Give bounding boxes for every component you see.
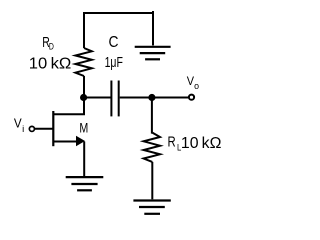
transistor M drain lead (horizontal then up to drain node) <box>53 98 84 114</box>
svg-text:V: V <box>187 74 194 88</box>
wire from resistor RD down to drain node <box>83 76 85 98</box>
svg-text:i: i <box>22 124 24 134</box>
terminal Vo open circle <box>189 95 194 100</box>
wire left vertical from top rail down to resistor RD <box>83 12 85 48</box>
wire right vertical from top rail down to upper ground <box>152 11 154 45</box>
capacitor C right plate <box>118 81 120 117</box>
wire top rail from drain branch to right ground branch <box>84 12 153 14</box>
resistor RL zigzag <box>144 133 160 162</box>
svg-text:C: C <box>109 34 119 51</box>
ground symbol under MOSFET source <box>66 177 104 190</box>
wire from capacitor right plate to output node <box>120 97 152 99</box>
wire from output node to Vo terminal <box>152 97 188 99</box>
node junction dot at drain / capacitor input <box>80 94 87 101</box>
svg-text:D: D <box>49 42 54 53</box>
svg-text:V: V <box>14 115 22 130</box>
transistor M channel bar <box>52 111 54 146</box>
svg-text:1μF: 1μF <box>105 54 123 71</box>
ground symbol top right <box>135 47 171 60</box>
svg-text:M: M <box>79 119 88 135</box>
svg-text:10 kΩ: 10 kΩ <box>181 135 222 152</box>
svg-text:o: o <box>194 81 199 91</box>
wire from drain node to capacitor left plate <box>84 97 111 99</box>
wire source down to ground <box>83 142 85 177</box>
transistor M source lead with arrowhead <box>53 141 77 143</box>
wire from output node down to resistor RL <box>151 98 153 133</box>
arrowhead on source pointing right <box>76 136 85 146</box>
wire from resistor RL down to lower right ground <box>151 162 153 199</box>
wire gate lead from Vi terminal to MOSFET bar <box>35 128 54 130</box>
resistor RD zigzag <box>75 48 91 76</box>
terminal Vi open circle <box>29 126 34 131</box>
capacitor C left plate <box>110 81 112 117</box>
svg-text:10 kΩ: 10 kΩ <box>29 55 72 72</box>
ground symbol bottom right <box>133 201 170 214</box>
node junction dot at capacitor output / RL top <box>148 94 155 101</box>
svg-text:R: R <box>168 134 176 151</box>
